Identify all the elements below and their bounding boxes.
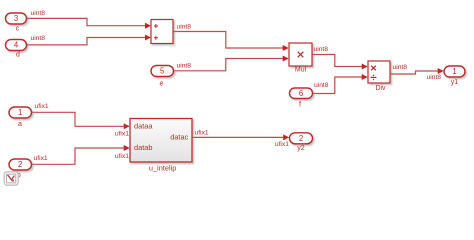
svg-text:u_intelip: u_intelip [149, 164, 177, 173]
svg-text:Mul: Mul [295, 67, 307, 74]
svg-text:1: 1 [18, 108, 22, 117]
svg-text:uint8: uint8 [31, 10, 46, 17]
svg-text:uint8: uint8 [177, 24, 192, 31]
svg-text:uint8: uint8 [31, 35, 46, 42]
svg-text:uint8: uint8 [393, 64, 408, 71]
svg-text:datab: datab [134, 143, 153, 152]
svg-text:ufix1: ufix1 [115, 153, 129, 160]
svg-text:y1: y1 [451, 79, 459, 86]
svg-text:uint8: uint8 [426, 74, 441, 81]
svg-text:3: 3 [14, 14, 18, 23]
svg-text:a: a [18, 121, 22, 128]
svg-text:6: 6 [299, 89, 303, 98]
svg-text:2: 2 [299, 134, 303, 143]
svg-text:datac: datac [170, 133, 188, 142]
svg-text:ufix1: ufix1 [34, 155, 48, 162]
svg-text:f: f [299, 102, 301, 109]
svg-text:2: 2 [18, 160, 22, 169]
svg-text:d: d [16, 52, 20, 59]
svg-text:ufix1: ufix1 [195, 130, 209, 137]
svg-text:5: 5 [160, 67, 165, 76]
svg-text:e: e [160, 80, 164, 87]
svg-text:uint8: uint8 [177, 62, 192, 69]
svg-text:1: 1 [452, 67, 456, 76]
svg-text:c: c [16, 25, 20, 32]
svg-text:Div: Div [375, 85, 386, 92]
svg-text:ufix1: ufix1 [35, 103, 49, 110]
svg-text:4: 4 [14, 41, 19, 50]
svg-text:y2: y2 [297, 145, 305, 152]
svg-text:ufix1: ufix1 [275, 141, 289, 148]
svg-text:ufix1: ufix1 [115, 130, 129, 137]
svg-text:uint8: uint8 [314, 46, 329, 53]
svg-text:uint8: uint8 [314, 82, 329, 89]
svg-text:dataa: dataa [134, 121, 153, 130]
